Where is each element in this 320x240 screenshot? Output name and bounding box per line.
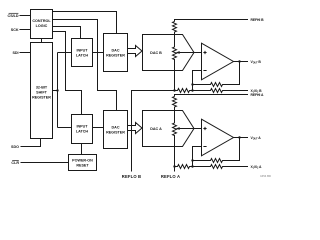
node DAC B string bottom / REFLO B [173, 89, 175, 91]
svg-text:REFLO A: REFLO A [161, 174, 180, 179]
node feedback A lower [191, 165, 193, 167]
wiper arrow DAC A to op amp [179, 128, 202, 130]
wire data to input latch B [58, 52, 72, 54]
wire resistor to DAC B top [174, 32, 176, 35]
input latch A box [72, 115, 93, 144]
svg-text:LATCH: LATCH [76, 129, 89, 133]
wire and resistor R3 to X1/X2 B pin [193, 89, 249, 93]
resistor top of DAC A string [173, 97, 177, 108]
svg-text:INPUT: INPUT [76, 124, 88, 128]
wire VOUT B [234, 61, 249, 63]
power-on reset box [69, 155, 97, 171]
svg-text:CONTROL: CONTROL [32, 19, 51, 23]
wire data bus vertical [57, 53, 59, 128]
DAC B resistor string upper wire [174, 35, 176, 48]
svg-text:CLR: CLR [11, 161, 19, 165]
resistor R1 channel B [175, 89, 193, 93]
dac register A box [104, 111, 128, 149]
wire REFHI A [175, 95, 249, 97]
svg-text:DAC: DAC [112, 125, 120, 129]
wire control line 4 to input latch A clock [53, 32, 82, 115]
wire shift register data out [53, 90, 58, 92]
control logic U1 box [31, 10, 53, 39]
node feedback B upper [191, 83, 193, 85]
potentiometer in DAC A [173, 123, 177, 136]
wire REFLO B [132, 91, 175, 172]
wire feedback node riser to minus input B [193, 71, 202, 91]
wire and resistor R2 feedback B [193, 62, 240, 87]
wire control logic to shift register [41, 39, 43, 43]
svg-text:SHIFT: SHIFT [36, 91, 47, 95]
svg-text:X1/X2 A: X1/X2 A [251, 165, 262, 170]
wire SDI input [20, 52, 31, 54]
svg-text:REFLO B: REFLO B [122, 174, 141, 179]
DAC A block [143, 111, 195, 147]
dac register B box [104, 34, 128, 72]
node DAC A string bottom / REFLO A [173, 165, 175, 167]
wire feedback node riser to minus input A [193, 147, 202, 167]
wire data to input latch A [58, 127, 72, 129]
svg-text:SDI: SDI [12, 51, 18, 55]
node VOUT A [238, 136, 240, 138]
resistor R1 channel A [175, 165, 193, 169]
bus arrow dac register A to DAC A [128, 123, 143, 134]
32-bit shift register box [31, 43, 53, 139]
DAC A resistor string upper wire [174, 111, 176, 124]
svg-text:DAC B: DAC B [150, 51, 162, 55]
resistor top of DAC B string [173, 22, 177, 33]
wire control line 2 to DAC register A clock [53, 20, 117, 111]
wire SCK input [20, 29, 31, 31]
wire VOUT A [234, 137, 249, 139]
svg-text:REFHI A: REFHI A [251, 93, 265, 97]
svg-text:LOGIC: LOGIC [36, 24, 48, 28]
svg-text:REGISTER: REGISTER [106, 53, 125, 57]
wiper arrow DAC B to op amp [179, 52, 202, 54]
svg-text:VOUT B: VOUT B [251, 60, 262, 65]
node VOUT B [238, 60, 240, 62]
wire CS/LD input [20, 15, 31, 17]
svg-text:RESET: RESET [76, 164, 89, 168]
input latch B box [72, 39, 93, 67]
DAC B resistor string lower wire [174, 59, 176, 91]
wire REFHI B [175, 20, 249, 22]
plus sign op-amp A [203, 127, 206, 130]
wire power-on reset to input latch A [81, 144, 83, 155]
svg-text:SCK: SCK [11, 28, 19, 32]
wire input latch A to dac register A [93, 127, 104, 129]
svg-text:LATCH: LATCH [76, 53, 89, 57]
svg-text:SDO: SDO [11, 145, 19, 149]
wire resistor to DAC A top [174, 107, 176, 111]
svg-text:REGISTER: REGISTER [32, 96, 51, 100]
op-amp B [202, 43, 234, 80]
potentiometer in DAC B [173, 47, 177, 60]
node data junction [56, 89, 58, 91]
bus arrow dac register B to DAC B [128, 46, 143, 57]
wire SDO output [21, 139, 41, 147]
wire and resistor R2 feedback A [193, 138, 240, 163]
wire input latch B to dac register B [93, 52, 104, 54]
svg-text:DAC: DAC [112, 48, 120, 52]
svg-text:DAC A: DAC A [150, 127, 162, 131]
wire control line 3 to input latch B clock [53, 27, 81, 39]
svg-text:32-BIT: 32-BIT [36, 86, 48, 90]
wire CLR input [21, 162, 69, 164]
node feedback B lower [191, 89, 193, 91]
svg-text:REGISTER: REGISTER [106, 130, 125, 134]
svg-text:1654 BD: 1654 BD [260, 174, 271, 178]
svg-text:VOUT A: VOUT A [251, 136, 262, 141]
svg-text:REFHI B: REFHI B [251, 18, 265, 22]
DAC A resistor string lower wire [174, 135, 176, 167]
wire and resistor R3 to X1/X2 A pin [193, 165, 249, 169]
DAC B block [143, 35, 195, 71]
wire REFLO A pin [174, 167, 176, 172]
svg-text:INPUT: INPUT [76, 48, 88, 52]
wire control line 1 to DAC register B clock [53, 12, 117, 34]
node feedback A upper [191, 159, 193, 161]
svg-text:CS/LD: CS/LD [8, 14, 19, 18]
svg-text:POWER-ON: POWER-ON [72, 159, 93, 163]
op-amp A [202, 119, 234, 156]
plus sign op-amp B [203, 51, 206, 54]
minus sign op-amp B [203, 70, 206, 72]
minus sign op-amp A [203, 146, 206, 148]
